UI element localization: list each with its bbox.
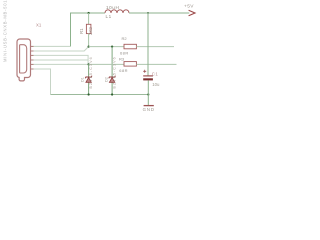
wire USB pin3 stub bbox=[31, 55, 89, 64]
connector X1 outer shell bbox=[17, 39, 31, 81]
svg-text:R2: R2 bbox=[122, 36, 128, 41]
svg-text:68R: 68R bbox=[119, 68, 128, 73]
wire D+ line to R3 bbox=[89, 63, 124, 65]
svg-text:10uH: 10uH bbox=[106, 5, 119, 10]
node junction VBUS/R1 bbox=[88, 12, 90, 14]
svg-text:D2: D2 bbox=[105, 77, 109, 82]
wire D+ from USB pin5 bbox=[31, 63, 89, 65]
svg-text:R3: R3 bbox=[119, 56, 125, 61]
inductor L1 bbox=[105, 10, 129, 13]
wire +5V rail left of L1 bbox=[89, 12, 105, 14]
diode D1 zener bbox=[85, 76, 92, 83]
wire USB shield to ground bbox=[31, 69, 51, 95]
wire C1 bottom bbox=[147, 80, 149, 94]
svg-text:GND: GND bbox=[143, 107, 155, 112]
wire D- from USB pin2 bbox=[31, 47, 89, 51]
capacitor C1 polarized bbox=[143, 70, 153, 81]
svg-text:D1: D1 bbox=[80, 77, 84, 82]
node junction D+/zener D1 bbox=[88, 63, 90, 65]
wire zener D1 column bbox=[88, 64, 90, 94]
svg-text:BZV55-C3V6: BZV55-C3V6 bbox=[113, 56, 117, 88]
resistor R3 bbox=[124, 62, 136, 67]
node junction C1 top bbox=[147, 12, 149, 14]
connector X1 inner cavity bbox=[20, 45, 27, 73]
wire ground rail bbox=[51, 94, 149, 96]
svg-text:R1: R1 bbox=[79, 28, 84, 34]
node junction D- zener D2 drop bbox=[111, 46, 113, 48]
wire VBUS pin1 bbox=[31, 45, 71, 47]
node junction R1/D- bbox=[88, 46, 90, 48]
resistor R2 bbox=[124, 44, 136, 49]
svg-text:X1: X1 bbox=[36, 23, 42, 28]
wire D+ right of R3 bbox=[136, 63, 176, 65]
node junction D2 gnd bbox=[111, 93, 113, 95]
wire C1 column bbox=[147, 13, 149, 76]
svg-text:+5V: +5V bbox=[184, 4, 194, 10]
node junction D1 gnd bbox=[88, 93, 90, 95]
wire R1 bottom bbox=[88, 34, 90, 47]
supply symbol +5V arrow bbox=[189, 10, 195, 16]
wire R1 top bbox=[88, 13, 90, 24]
node junction C1 gnd bbox=[147, 93, 149, 95]
resistor R1 bbox=[86, 24, 91, 33]
svg-text:10u: 10u bbox=[152, 82, 160, 87]
svg-text:C1: C1 bbox=[152, 71, 159, 76]
svg-text:BZV55-C3V6: BZV55-C3V6 bbox=[89, 56, 93, 88]
svg-text:68R: 68R bbox=[120, 51, 129, 56]
wire zener D2 column bbox=[111, 47, 113, 95]
diode D2 zener bbox=[109, 76, 116, 83]
ground symbol bbox=[144, 105, 154, 107]
wire +5V rail right of L1 bbox=[129, 12, 189, 14]
wire D- right of R2 bbox=[136, 46, 174, 48]
connector pin stubs bbox=[31, 46, 34, 69]
wire USB pin4 stub bbox=[31, 59, 89, 61]
svg-text:MINI-USB-CNXB-MB-501: MINI-USB-CNXB-MB-501 bbox=[3, 0, 8, 62]
wire D- line to R2 bbox=[89, 46, 124, 48]
wire VBUS riser bbox=[71, 13, 89, 46]
svg-text:L1: L1 bbox=[106, 14, 112, 19]
wire GND stub bbox=[147, 95, 149, 106]
